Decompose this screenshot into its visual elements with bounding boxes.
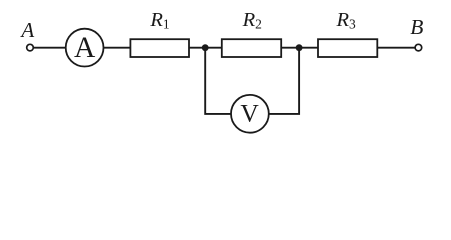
svg-text:A: A bbox=[74, 32, 96, 64]
wire R1 to R2 bbox=[189, 47, 223, 49]
terminal A bbox=[27, 44, 34, 51]
svg-text:R2: R2 bbox=[242, 9, 262, 31]
terminal B bbox=[415, 44, 422, 51]
voltmeter V bbox=[231, 95, 269, 133]
svg-text:V: V bbox=[240, 99, 259, 128]
resistor R3 bbox=[318, 39, 377, 57]
svg-text:R3: R3 bbox=[336, 9, 357, 31]
svg-text:A: A bbox=[19, 18, 34, 42]
wire voltmeter to right junction bbox=[269, 48, 299, 114]
wire R3 to terminal B bbox=[377, 47, 415, 49]
wire ammeter to R1 bbox=[104, 47, 132, 49]
resistor R2 bbox=[222, 39, 281, 57]
svg-text:B: B bbox=[410, 15, 423, 39]
ammeter A bbox=[66, 29, 104, 67]
junction node left bbox=[202, 44, 209, 51]
resistor R1 bbox=[130, 39, 189, 57]
junction node right bbox=[296, 44, 303, 51]
wire R2 to R3 bbox=[281, 47, 319, 49]
wire terminal A to ammeter bbox=[33, 47, 65, 49]
wire left junction down bbox=[205, 48, 231, 114]
svg-text:R1: R1 bbox=[149, 9, 169, 31]
